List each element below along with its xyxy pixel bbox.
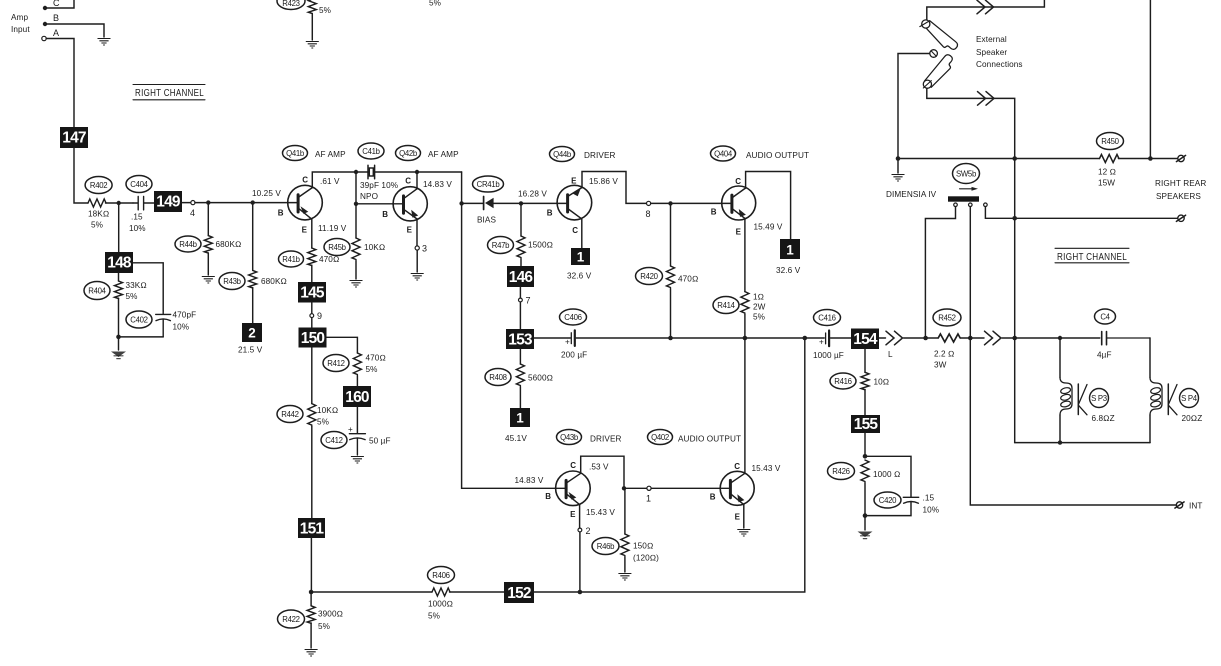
svg-text:R46b: R46b — [597, 542, 615, 551]
svg-text:.15: .15 — [923, 494, 935, 503]
svg-text:A: A — [53, 28, 59, 38]
svg-text:BIAS: BIAS — [477, 216, 496, 225]
junction — [354, 202, 358, 206]
svg-text:10%: 10% — [129, 224, 146, 233]
External Speaker Connections text — [976, 35, 1023, 69]
resistor R41b — [279, 219, 340, 282]
ground — [892, 159, 905, 182]
junction riser — [803, 336, 808, 341]
wire — [576, 337, 824, 339]
box 2 — [238, 323, 263, 355]
diode CR41b — [462, 176, 521, 225]
svg-text:15W: 15W — [1098, 179, 1115, 188]
junction — [1058, 440, 1062, 444]
capacitor C41b — [358, 143, 398, 201]
svg-text:15.43 V: 15.43 V — [752, 464, 781, 473]
svg-text:DIMENSIA IV: DIMENSIA IV — [886, 190, 937, 199]
wire 150 down — [311, 348, 313, 404]
svg-text:.53 V: .53 V — [589, 463, 609, 472]
wire to terminal — [1118, 158, 1177, 160]
wire — [864, 516, 866, 530]
svg-text:155: 155 — [854, 416, 879, 433]
junction SP3 — [1058, 336, 1062, 340]
svg-text:.61 V: .61 V — [320, 177, 340, 186]
svg-text:1500Ω: 1500Ω — [528, 241, 553, 250]
collector wire over to box 1 — [746, 172, 791, 240]
svg-text:R43b: R43b — [223, 277, 241, 286]
ground — [618, 574, 631, 581]
svg-text:R41b: R41b — [282, 255, 300, 264]
Q404 ref oval — [711, 146, 810, 161]
svg-text:SPEAKERS: SPEAKERS — [1156, 192, 1201, 201]
svg-text:R414: R414 — [717, 301, 735, 310]
svg-text:C404: C404 — [130, 180, 148, 189]
svg-text:1000 µF: 1000 µF — [813, 351, 844, 360]
svg-text:10KΩ: 10KΩ — [364, 243, 385, 252]
resistor R423 (partial at top edge) — [277, 0, 331, 40]
svg-text:160: 160 — [345, 389, 369, 406]
resistor R414 — [713, 218, 766, 338]
svg-text:33KΩ: 33KΩ — [126, 281, 147, 290]
svg-text:C: C — [735, 177, 741, 186]
svg-text:NPO: NPO — [360, 192, 378, 201]
phone plug 1 — [920, 20, 958, 50]
Amp Input label — [11, 13, 30, 34]
node 1 — [646, 486, 729, 503]
svg-text:B: B — [53, 13, 59, 23]
riser from top edge — [1149, 0, 1151, 159]
svg-text:C: C — [405, 177, 411, 186]
svg-text:12 Ω: 12 Ω — [1098, 168, 1116, 177]
collector wire — [416, 172, 418, 189]
wire — [195, 202, 297, 204]
box 150 — [299, 328, 327, 348]
title RIGHT CHANNEL left — [133, 85, 205, 100]
svg-text:+: + — [348, 425, 353, 434]
svg-text:Speaker: Speaker — [976, 48, 1007, 57]
svg-text:(120Ω): (120Ω) — [633, 554, 659, 563]
svg-text:Q42b: Q42b — [399, 149, 418, 158]
svg-text:5%: 5% — [366, 365, 378, 374]
svg-text:+: + — [565, 338, 570, 347]
svg-text:INT: INT — [1189, 502, 1203, 511]
svg-text:C402: C402 — [130, 315, 147, 324]
capacitor C406 — [560, 309, 588, 360]
svg-text:470Ω: 470Ω — [678, 275, 698, 284]
svg-text:R442: R442 — [281, 410, 298, 419]
svg-text:200 µF: 200 µF — [561, 351, 587, 360]
svg-text:C: C — [570, 461, 576, 470]
junction — [863, 513, 868, 518]
svg-text:R402: R402 — [90, 181, 107, 190]
node 3 — [415, 219, 427, 272]
svg-text:S P4: S P4 — [1181, 394, 1198, 403]
svg-text:2.2 Ω: 2.2 Ω — [934, 350, 954, 359]
wire — [904, 337, 939, 339]
svg-text:E: E — [571, 177, 577, 186]
box 1 (45.1V) — [505, 408, 530, 443]
box 155 — [851, 415, 880, 433]
resistor R450 — [1097, 133, 1124, 188]
wire 152 row — [311, 591, 432, 593]
svg-text:4: 4 — [190, 208, 195, 218]
capacitor C4 — [1095, 309, 1151, 360]
terminal A — [42, 28, 59, 41]
contact c — [984, 203, 1178, 218]
node junction — [117, 201, 121, 205]
svg-text:150Ω: 150Ω — [633, 542, 653, 551]
svg-text:149: 149 — [156, 194, 181, 211]
collector wire up to bus — [744, 338, 746, 473]
wire to right riser — [534, 338, 805, 592]
junction — [519, 201, 523, 205]
svg-text:Connections: Connections — [976, 60, 1023, 69]
capacitor C412 — [321, 407, 391, 455]
svg-text:C: C — [572, 226, 578, 235]
svg-text:39pF 10%: 39pF 10% — [360, 181, 398, 190]
capacitor C420 — [865, 456, 939, 515]
svg-text:21.5 V: 21.5 V — [238, 346, 263, 355]
box 151 — [298, 518, 325, 538]
node 8 — [646, 201, 731, 219]
chevron connector — [978, 92, 995, 106]
emitter wire up and over to node 8 — [582, 172, 647, 204]
speaker SP4 — [1150, 338, 1202, 443]
resistor R420 — [636, 203, 699, 338]
svg-text:1: 1 — [577, 250, 585, 265]
svg-text:C: C — [734, 462, 740, 471]
jack sleeve contact — [898, 50, 937, 158]
svg-text:Amp: Amp — [11, 13, 28, 22]
transistor Q404 — [711, 177, 756, 236]
svg-text:150: 150 — [301, 330, 325, 347]
resistor R44b — [175, 203, 241, 275]
svg-text:7: 7 — [526, 296, 531, 306]
svg-text:Q43b: Q43b — [560, 433, 579, 442]
transistor Q43b — [545, 461, 590, 519]
svg-text:C406: C406 — [564, 313, 581, 322]
svg-text:470Ω: 470Ω — [366, 354, 386, 363]
svg-text:10%: 10% — [173, 323, 190, 332]
svg-text:4µF: 4µF — [1097, 351, 1112, 360]
svg-text:2: 2 — [248, 326, 256, 341]
svg-text:C420: C420 — [879, 496, 897, 505]
wire to 148 — [118, 203, 120, 252]
svg-text:L: L — [888, 350, 893, 359]
svg-text:1000 Ω: 1000 Ω — [873, 470, 900, 479]
svg-text:1: 1 — [516, 411, 524, 426]
svg-text:10KΩ: 10KΩ — [317, 406, 338, 415]
svg-text:R426: R426 — [832, 467, 849, 476]
ground — [305, 650, 318, 657]
wire — [960, 337, 984, 339]
svg-text:B: B — [711, 208, 717, 217]
chevron connector top — [977, 0, 994, 14]
Q402 ref oval — [648, 430, 742, 445]
svg-text:E: E — [735, 513, 741, 522]
svg-text:E: E — [407, 226, 413, 235]
wire down to Q42b base — [356, 172, 402, 204]
svg-text:B: B — [545, 492, 551, 501]
svg-text:5%: 5% — [429, 0, 441, 8]
wire + connector — [879, 337, 886, 339]
junction — [622, 486, 626, 490]
resistor R442 — [277, 404, 338, 518]
ground — [351, 457, 364, 464]
junction — [251, 200, 255, 204]
junction — [1012, 336, 1017, 341]
svg-text:16.28 V: 16.28 V — [518, 190, 547, 199]
svg-text:R452: R452 — [938, 314, 955, 323]
svg-text:+: + — [819, 338, 824, 347]
svg-text:18KΩ: 18KΩ — [88, 210, 109, 219]
svg-text:E: E — [570, 510, 576, 519]
svg-text:5%: 5% — [317, 418, 329, 427]
svg-text:2W: 2W — [753, 303, 766, 312]
box 152 — [504, 582, 534, 603]
svg-text:C: C — [53, 0, 60, 8]
svg-text:Q41b: Q41b — [286, 149, 305, 158]
svg-text:1Ω: 1Ω — [753, 293, 764, 302]
svg-text:152: 152 — [507, 585, 531, 602]
ground (solid style) — [858, 532, 873, 539]
box 148 — [105, 252, 133, 273]
svg-text:470pF: 470pF — [173, 311, 197, 320]
node 7 — [519, 287, 531, 329]
box 154 — [851, 329, 879, 350]
box 145 — [298, 282, 326, 303]
svg-text:C416: C416 — [818, 314, 835, 323]
junction INT riser — [968, 336, 973, 341]
svg-text:RIGHT REAR: RIGHT REAR — [1155, 179, 1206, 188]
node 9 — [310, 303, 322, 328]
ground — [306, 42, 319, 49]
box 149 — [154, 191, 182, 212]
svg-text:5%: 5% — [753, 313, 765, 322]
svg-text:15.43 V: 15.43 V — [586, 508, 615, 517]
wire 148 down — [118, 273, 120, 281]
svg-text:R404: R404 — [88, 286, 106, 295]
svg-text:.15: .15 — [131, 213, 143, 222]
svg-text:AUDIO OUTPUT: AUDIO OUTPUT — [678, 435, 741, 444]
Q41b ref oval — [283, 146, 347, 161]
terminal right rear 1 — [1176, 155, 1185, 161]
junction ground tap — [896, 156, 901, 161]
wire — [45, 0, 74, 8]
svg-text:C4: C4 — [1100, 313, 1110, 322]
top wire — [1015, 337, 1100, 339]
svg-text:E: E — [302, 226, 308, 235]
collector wire over to node-1 row — [581, 456, 624, 488]
resistor R43b — [219, 203, 287, 323]
resistor R46b — [592, 488, 659, 572]
svg-text:CR41b: CR41b — [477, 180, 501, 189]
svg-text:5600Ω: 5600Ω — [528, 374, 553, 383]
resistor R406 — [428, 567, 505, 621]
wire from 148 right — [133, 263, 163, 311]
wire — [970, 338, 1176, 505]
switch bar — [948, 196, 979, 201]
svg-text:Input: Input — [11, 25, 30, 34]
box 1 (32.6 V right) — [776, 239, 801, 275]
svg-text:148: 148 — [107, 255, 132, 272]
svg-text:B: B — [278, 209, 284, 218]
terminal B — [43, 13, 59, 26]
svg-text:50 µF: 50 µF — [369, 437, 391, 446]
svg-text:AUDIO OUTPUT: AUDIO OUTPUT — [746, 151, 809, 160]
transistor Q402 — [710, 462, 754, 521]
junction + wire — [116, 335, 163, 350]
transistor Q44b — [547, 177, 592, 236]
svg-text:E: E — [736, 227, 742, 236]
wire — [106, 202, 134, 204]
svg-text:R420: R420 — [640, 272, 658, 281]
junction riser — [1012, 216, 1017, 221]
SW5b ref oval — [953, 164, 980, 184]
resistor R416 — [830, 349, 889, 415]
resistor R408 — [485, 349, 553, 408]
ground — [737, 530, 750, 537]
resistor R426 — [828, 460, 901, 516]
title RIGHT CHANNEL right — [1055, 248, 1129, 262]
svg-text:1: 1 — [646, 494, 651, 504]
svg-text:6.8ΩZ: 6.8ΩZ — [1092, 414, 1115, 423]
wire — [74, 148, 88, 203]
svg-text:B: B — [710, 493, 716, 502]
junction — [668, 201, 672, 205]
svg-text:3900Ω: 3900Ω — [318, 610, 343, 619]
emitter wire to node 2 — [578, 505, 591, 595]
svg-text:14.83 V: 14.83 V — [515, 476, 544, 485]
capacitor C404 — [126, 176, 154, 234]
terminal C — [43, 0, 60, 10]
box 153 — [506, 329, 534, 349]
bottom wire — [1015, 442, 1150, 444]
svg-text:153: 153 — [508, 331, 533, 348]
arrow — [960, 187, 979, 191]
Q44b ref oval — [550, 147, 616, 162]
wire row — [898, 158, 1100, 160]
box 1 (32.6 V) — [567, 248, 592, 281]
ground — [411, 274, 424, 281]
ground — [350, 281, 363, 288]
svg-text:B: B — [382, 210, 388, 219]
svg-text:RIGHT CHANNEL: RIGHT CHANNEL — [1057, 252, 1127, 263]
svg-text:145: 145 — [300, 285, 325, 302]
svg-text:3: 3 — [422, 244, 427, 254]
svg-text:45.1V: 45.1V — [505, 434, 527, 443]
svg-text:C41b: C41b — [362, 147, 380, 156]
svg-text:151: 151 — [300, 520, 325, 537]
svg-text:Q404: Q404 — [714, 150, 733, 159]
node 4 — [182, 201, 195, 219]
svg-text:470Ω: 470Ω — [319, 255, 339, 264]
svg-text:680KΩ: 680KΩ — [261, 277, 287, 286]
resistor R422 — [278, 592, 344, 648]
resistor R402 — [85, 177, 112, 230]
svg-text:5%: 5% — [318, 622, 330, 631]
contact a — [925, 203, 957, 338]
svg-text:147: 147 — [62, 130, 86, 147]
Q42b ref oval — [396, 146, 460, 161]
svg-text:R408: R408 — [489, 373, 506, 382]
svg-text:10.25 V: 10.25 V — [252, 189, 281, 198]
wire to Q44b base — [521, 202, 567, 204]
junction with plug riser — [1012, 156, 1017, 161]
svg-text:5%: 5% — [319, 6, 331, 15]
wire — [534, 337, 570, 339]
contact b — [969, 203, 973, 338]
wire 150 to R412 — [327, 337, 358, 353]
ground — [98, 39, 111, 46]
wire 151 down — [310, 538, 312, 592]
svg-text:9: 9 — [317, 311, 322, 321]
svg-text:R416: R416 — [834, 377, 851, 386]
junction — [309, 590, 314, 595]
capacitor C416 — [813, 310, 844, 361]
svg-text:32.6 V: 32.6 V — [567, 272, 592, 281]
svg-text:DRIVER: DRIVER — [590, 435, 622, 444]
box 147 — [60, 127, 88, 148]
svg-text:R45b: R45b — [328, 243, 346, 252]
svg-text:R412: R412 — [327, 359, 344, 368]
svg-text:Q44b: Q44b — [553, 150, 572, 159]
svg-text:B: B — [547, 208, 553, 217]
svg-text:680KΩ: 680KΩ — [216, 240, 242, 249]
chevron connector — [985, 331, 1002, 345]
svg-text:External: External — [976, 35, 1007, 44]
svg-text:C412: C412 — [325, 436, 342, 445]
svg-text:C: C — [302, 176, 308, 185]
svg-text:AF AMP: AF AMP — [428, 150, 459, 159]
box 146 — [507, 266, 534, 287]
svg-text:RIGHT CHANNEL: RIGHT CHANNEL — [135, 88, 204, 99]
svg-text:8: 8 — [646, 209, 651, 219]
Q43b ref oval — [557, 430, 622, 445]
svg-text:10%: 10% — [923, 506, 940, 515]
svg-text:20ΩZ: 20ΩZ — [1182, 414, 1203, 423]
svg-text:11.19 V: 11.19 V — [318, 224, 347, 233]
svg-text:2: 2 — [586, 526, 591, 536]
svg-text:3W: 3W — [934, 361, 947, 370]
svg-text:R44b: R44b — [179, 240, 197, 249]
junction — [1148, 156, 1153, 161]
collector wire down to box 1 — [581, 219, 583, 248]
junction sw wire — [923, 336, 928, 341]
transistor Q42b — [382, 177, 427, 235]
wire from plug 2 down and right — [927, 88, 1015, 442]
RIGHT REAR SPEAKERS label — [1155, 179, 1206, 201]
resistor R404 — [84, 281, 147, 337]
junction — [863, 454, 868, 459]
phone plug 2 — [923, 55, 952, 89]
svg-text:SW5b: SW5b — [956, 170, 977, 179]
svg-text:R406: R406 — [432, 571, 449, 580]
wire — [46, 39, 74, 128]
capacitor C402 — [126, 311, 196, 337]
ground — [202, 277, 215, 284]
junction — [354, 170, 358, 174]
wire from plug 1 tip up and right — [927, 0, 1045, 20]
junction — [415, 170, 419, 174]
svg-text:15.86 V: 15.86 V — [589, 177, 618, 186]
svg-text:1000Ω: 1000Ω — [428, 600, 453, 609]
svg-text:10Ω: 10Ω — [874, 378, 890, 387]
wire — [1002, 337, 1015, 339]
wire node1 row — [624, 487, 647, 489]
junction — [459, 201, 463, 205]
svg-text:DRIVER: DRIVER — [584, 151, 616, 160]
